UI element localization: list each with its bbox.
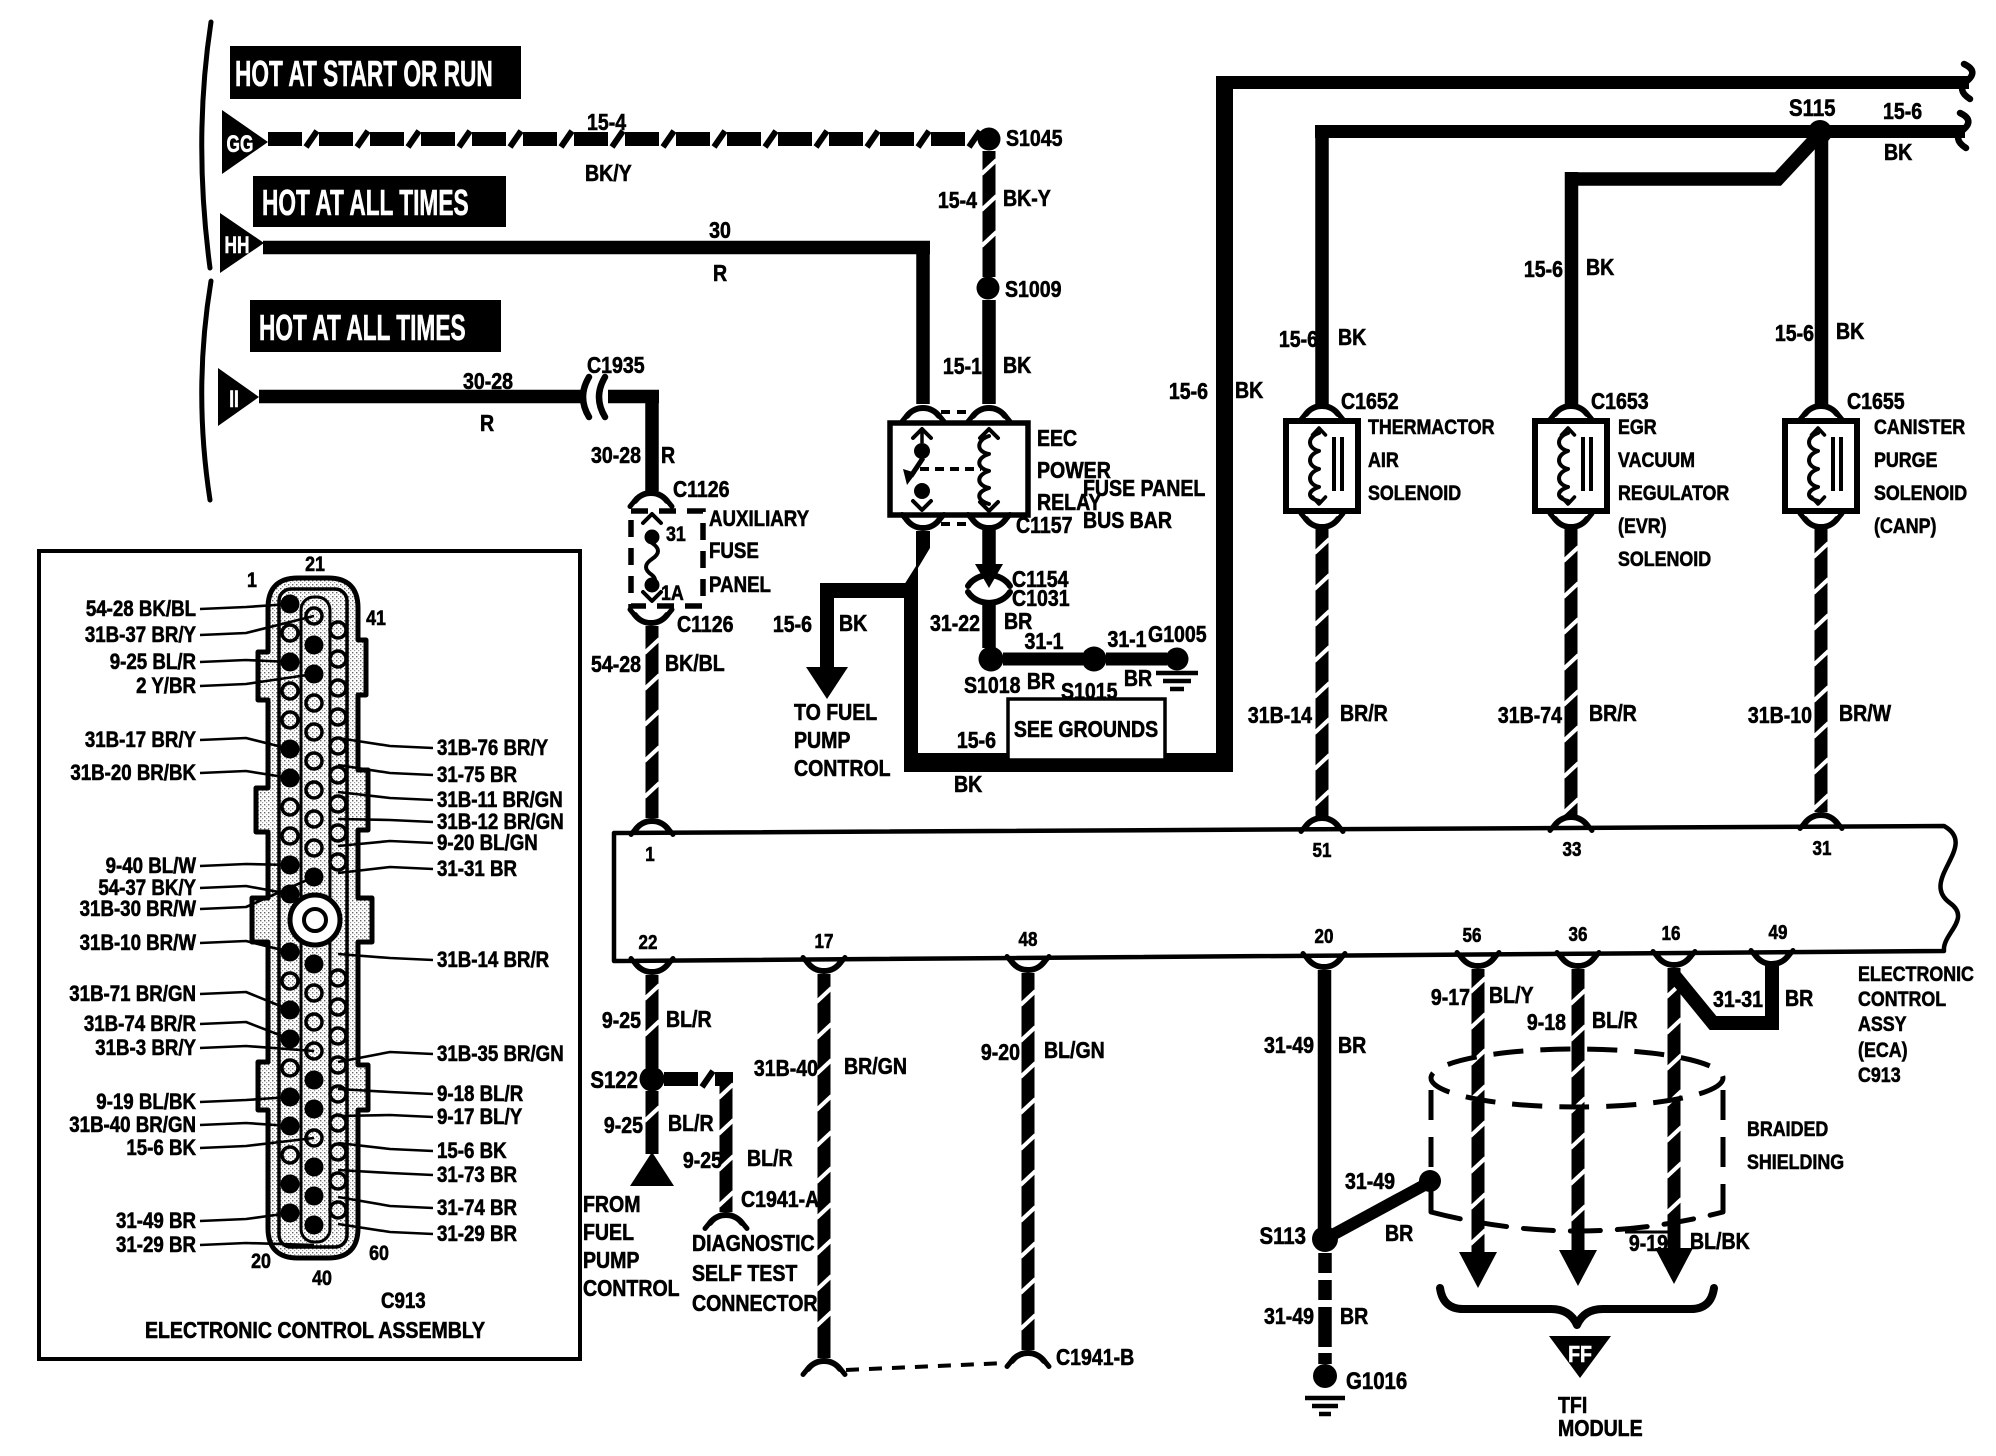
splice S113 <box>1312 1226 1338 1252</box>
connector C1154 arrowhead <box>975 564 1003 588</box>
dashed link below relay <box>941 522 973 526</box>
EGR vacuum regulator solenoid (C1653) <box>1555 406 1587 414</box>
svg-text:C1126: C1126 <box>677 612 734 638</box>
wire 30-28 R after C1935 <box>608 390 659 404</box>
ground symbol G1005 <box>1156 671 1198 676</box>
left margin brace upper <box>202 22 211 268</box>
wire 31-31 BR pin49 to pin16 <box>1673 964 1772 1023</box>
connector cup below pin 20 <box>1308 959 1340 967</box>
svg-text:TO FUEL: TO FUEL <box>794 700 877 726</box>
svg-text:SEE GROUNDS: SEE GROUNDS <box>1014 717 1158 743</box>
svg-text:DIAGNOSTIC: DIAGNOSTIC <box>692 1231 815 1257</box>
C913 connector body <box>252 578 372 1258</box>
svg-text:31B-71 BR/GN: 31B-71 BR/GN <box>69 983 196 1007</box>
svg-text:ELECTRONIC: ELECTRONIC <box>1858 963 1974 987</box>
relay switch pin arrow (top) <box>913 429 931 438</box>
svg-text:(ECA): (ECA) <box>1858 1039 1908 1063</box>
svg-text:PUMP: PUMP <box>583 1248 639 1274</box>
svg-text:31-31 BR: 31-31 BR <box>437 858 517 882</box>
svg-text:BL/Y: BL/Y <box>1489 983 1534 1009</box>
svg-text:FF: FF <box>1568 1342 1592 1368</box>
svg-text:C1031: C1031 <box>1012 586 1070 612</box>
svg-text:33: 33 <box>1563 838 1582 861</box>
ECA connector band <box>614 826 1958 961</box>
svg-text:31-1: 31-1 <box>1024 629 1063 655</box>
svg-text:C913: C913 <box>381 1290 426 1314</box>
svg-text:BK: BK <box>1586 255 1615 281</box>
wire 15-4 BK-Y S1045 to S1009 (hatched) <box>983 151 996 277</box>
svg-text:PANEL: PANEL <box>709 574 771 598</box>
svg-text:31: 31 <box>1813 837 1832 860</box>
svg-text:20: 20 <box>1315 925 1334 948</box>
svg-text:C1935: C1935 <box>587 353 645 379</box>
svg-text:S113: S113 <box>1259 1222 1306 1249</box>
wire to thermactor solenoid <box>1315 132 1329 404</box>
svg-text:BR: BR <box>1385 1221 1413 1247</box>
connector cup above pin 33 <box>1555 817 1587 825</box>
svg-text:BL/GN: BL/GN <box>1044 1038 1105 1064</box>
connector C1157 above relay (right) <box>973 408 1005 416</box>
svg-text:C1157: C1157 <box>1016 513 1072 539</box>
svg-text:15-6: 15-6 <box>1169 379 1208 405</box>
svg-text:FUSE: FUSE <box>709 540 759 564</box>
svg-text:15-6: 15-6 <box>1524 257 1563 283</box>
svg-text:REGULATOR: REGULATOR <box>1618 482 1729 506</box>
wire 31-22 BR to S1018 <box>982 604 996 648</box>
wire 9-20 BL/GN (hatched) <box>1022 973 1035 1350</box>
svg-text:31B-14 BR/R: 31B-14 BR/R <box>437 949 549 973</box>
connector cup above pin 31 <box>1805 815 1837 823</box>
SEE GROUNDS box <box>1008 699 1165 760</box>
svg-text:ASSY: ASSY <box>1858 1013 1907 1037</box>
svg-text:15-6: 15-6 <box>1279 327 1318 353</box>
svg-text:HOT AT ALL TIMES: HOT AT ALL TIMES <box>262 184 469 223</box>
svg-text:31B-17 BR/Y: 31B-17 BR/Y <box>85 729 197 753</box>
EEC power relay box <box>890 423 1028 515</box>
svg-text:21: 21 <box>305 553 325 577</box>
svg-text:C1941-B: C1941-B <box>1056 1345 1134 1371</box>
to fuel pump arrowhead <box>806 667 848 699</box>
svg-text:BK: BK <box>1836 319 1865 345</box>
svg-text:HH: HH <box>225 232 250 258</box>
fuse element <box>646 543 658 585</box>
svg-text:31-49: 31-49 <box>1264 1304 1314 1330</box>
braided shielding dashed cylinder <box>1431 1049 1723 1107</box>
svg-text:BL/R: BL/R <box>668 1111 714 1137</box>
connector C1941-B (left) <box>808 1361 840 1369</box>
svg-text:BR: BR <box>1027 669 1055 695</box>
connector C1157 above relay (left) <box>907 408 939 416</box>
svg-text:C1655: C1655 <box>1847 389 1905 415</box>
svg-text:CONNECTOR: CONNECTOR <box>692 1291 818 1317</box>
svg-text:ELECTRONIC CONTROL ASSEMBLY: ELECTRONIC CONTROL ASSEMBLY <box>145 1318 485 1344</box>
C913 connector inner slot <box>301 597 330 1242</box>
connector cup below pin 48 <box>1012 962 1044 970</box>
connector cup below pin 56 <box>1462 958 1494 966</box>
C913 pins <box>281 595 300 614</box>
svg-text:31-73 BR: 31-73 BR <box>437 1164 517 1188</box>
feed arrow II <box>218 368 259 426</box>
svg-text:BK: BK <box>839 611 868 637</box>
relay coil <box>980 429 998 438</box>
svg-text:CONTROL: CONTROL <box>1858 988 1946 1012</box>
svg-text:BR: BR <box>1124 666 1152 692</box>
shield tap dot <box>1419 1170 1441 1192</box>
wire 31B-74 BR/R to ECA pin 33 (hatched) <box>1565 528 1578 818</box>
connector C1157 below relay (right) <box>973 520 1005 528</box>
in-line connector C1935 <box>583 377 589 417</box>
wire 9-18 BL/R (hatched) <box>1572 969 1585 1250</box>
wire 30-28 R from II <box>259 390 582 404</box>
wire 31-49 BR S113 to G1016 (dashed) <box>1318 1253 1332 1273</box>
svg-text:BR: BR <box>1785 986 1813 1012</box>
connector cup above pin 51 <box>1306 818 1338 826</box>
feed arrow HH <box>220 213 264 273</box>
C913 detail box <box>39 551 580 1359</box>
svg-text:VACUUM: VACUUM <box>1618 449 1695 473</box>
dashed link C1941-B <box>846 1363 1006 1370</box>
erased text mark <box>734 874 768 879</box>
svg-text:9-19 BL/BK: 9-19 BL/BK <box>96 1091 196 1115</box>
C913 connector inner outline <box>279 589 347 1247</box>
svg-text:56: 56 <box>1463 924 1482 947</box>
svg-text:C1126: C1126 <box>673 477 730 503</box>
wire S122 to C1941-A (hatched horiz) <box>664 1072 698 1086</box>
svg-text:31B-74 BR/R: 31B-74 BR/R <box>84 1013 196 1037</box>
wire down to C1941-A (hatched) <box>720 1072 733 1212</box>
svg-text:BK: BK <box>1003 353 1032 379</box>
svg-text:SOLENOID: SOLENOID <box>1618 548 1711 572</box>
splice S1015 <box>1082 647 1107 672</box>
TFI arrowhead (pin36) <box>1559 1250 1597 1286</box>
svg-text:1: 1 <box>247 569 257 593</box>
wire 31B-14 BR/R to ECA pin 51 (hatched) <box>1316 528 1329 818</box>
off-page arrow FF <box>1549 1336 1611 1378</box>
splice S1045 <box>978 128 1001 151</box>
svg-text:BK-Y: BK-Y <box>1003 186 1051 212</box>
svg-text:9-18: 9-18 <box>1527 1010 1566 1036</box>
svg-text:(CANP): (CANP) <box>1874 515 1936 539</box>
svg-text:31-1: 31-1 <box>1107 627 1146 653</box>
relay switch pin arrow (bottom) <box>921 483 923 498</box>
C913 screw boss <box>290 895 340 945</box>
svg-text:S1009: S1009 <box>1005 277 1062 303</box>
dashed link above relay <box>941 410 973 414</box>
svg-text:S1045: S1045 <box>1006 126 1063 152</box>
svg-text:31-29 BR: 31-29 BR <box>437 1223 517 1247</box>
svg-text:EGR: EGR <box>1618 416 1657 440</box>
svg-text:9-18 BL/R: 9-18 BL/R <box>437 1083 523 1107</box>
splice S115 <box>1808 120 1832 144</box>
svg-text:BK: BK <box>1884 140 1913 166</box>
svg-text:C1941-A: C1941-A <box>741 1187 819 1213</box>
svg-text:R: R <box>480 411 494 437</box>
svg-text:FROM: FROM <box>583 1192 641 1218</box>
connector cup below pin 22 <box>636 964 668 972</box>
svg-text:SOLENOID: SOLENOID <box>1368 482 1461 506</box>
svg-text:9-40 BL/W: 9-40 BL/W <box>106 855 197 879</box>
svg-text:R: R <box>661 443 675 469</box>
relay actuation dashed line <box>920 467 981 471</box>
connector C1126 (bottom) <box>635 615 667 623</box>
connector cup below pin 16 <box>1658 957 1690 965</box>
svg-text:20: 20 <box>251 1250 271 1274</box>
wire S115 to canister purge solenoid <box>1815 140 1829 404</box>
wire 15-6 BK relay to bottom <box>904 531 930 772</box>
relay switch NO dot <box>914 483 930 499</box>
svg-text:31B-35 BR/GN: 31B-35 BR/GN <box>437 1043 564 1067</box>
svg-text:31B-10: 31B-10 <box>1748 703 1812 729</box>
wire 31-49 BR S113 to shield <box>1325 1182 1430 1239</box>
svg-text:PURGE: PURGE <box>1874 449 1937 473</box>
svg-text:BR/R: BR/R <box>1340 701 1388 727</box>
svg-text:31B-40: 31B-40 <box>754 1056 818 1082</box>
svg-text:31B-11 BR/GN: 31B-11 BR/GN <box>437 789 563 813</box>
wire 31B-40 BR/GN (hatched) <box>818 974 831 1358</box>
svg-text:9-25 BL/R: 9-25 BL/R <box>110 651 196 675</box>
svg-text:BK: BK <box>1338 325 1367 351</box>
svg-text:BK: BK <box>1235 378 1264 404</box>
svg-text:30: 30 <box>709 218 731 244</box>
wire S115 to EGR drop <box>1565 136 1818 179</box>
wire 9-17 BL/Y (hatched) <box>1472 969 1485 1252</box>
relay switch common dot <box>914 443 930 459</box>
svg-text:TFI: TFI <box>1558 1393 1587 1419</box>
wire 15-1 BK to relay <box>982 300 996 404</box>
svg-text:15-6: 15-6 <box>1883 99 1922 125</box>
svg-text:BK: BK <box>954 772 983 798</box>
svg-text:BL/R: BL/R <box>666 1007 712 1033</box>
svg-text:60: 60 <box>369 1242 389 1266</box>
svg-text:31B-14: 31B-14 <box>1248 703 1312 729</box>
svg-text:15-1: 15-1 <box>943 354 982 380</box>
svg-text:9-25: 9-25 <box>683 1148 722 1174</box>
svg-text:30-28: 30-28 <box>591 443 641 469</box>
svg-text:51: 51 <box>1313 839 1332 862</box>
svg-text:9-17: 9-17 <box>1431 985 1470 1011</box>
svg-text:BRAIDED: BRAIDED <box>1747 1118 1828 1142</box>
ground symbol G1016 <box>1305 1396 1345 1401</box>
svg-text:SOLENOID: SOLENOID <box>1874 482 1967 506</box>
fuse pin 31 arrow <box>643 514 661 523</box>
svg-text:31-75 BR: 31-75 BR <box>437 764 517 788</box>
svg-text:FUSE PANEL: FUSE PANEL <box>1083 476 1205 502</box>
wire 9-25 BL/R pin22 to S122 (hatched) <box>646 975 659 1068</box>
svg-text:15-4: 15-4 <box>938 188 977 214</box>
connector cup below pin 49 <box>1756 956 1788 964</box>
wire 15-6 BK bottom run <box>904 753 1233 772</box>
svg-text:16: 16 <box>1662 922 1681 945</box>
svg-text:40: 40 <box>312 1267 332 1291</box>
svg-text:9-25: 9-25 <box>604 1113 643 1139</box>
svg-text:C1653: C1653 <box>1591 389 1649 415</box>
torn end (top wire) <box>1962 64 1972 99</box>
svg-text:CANISTER: CANISTER <box>1874 416 1965 440</box>
connector cup below pin 17 <box>808 963 840 971</box>
svg-text:31B-74: 31B-74 <box>1498 703 1562 729</box>
wire S122 down to from-fuel-pump (hatched) <box>646 1091 659 1154</box>
svg-text:15-6: 15-6 <box>1775 321 1814 347</box>
svg-text:22: 22 <box>639 931 658 954</box>
feed arrow GG <box>222 110 268 174</box>
svg-text:31-49 BR: 31-49 BR <box>116 1210 196 1234</box>
svg-text:S1018: S1018 <box>964 673 1021 699</box>
svg-text:54-28 BK/BL: 54-28 BK/BL <box>86 598 196 622</box>
svg-text:GG: GG <box>227 131 254 157</box>
wire 15-4 BK/Y from GG (hatched) <box>268 132 302 146</box>
svg-text:G1005: G1005 <box>1148 622 1207 648</box>
svg-text:SELF TEST: SELF TEST <box>692 1261 797 1287</box>
connector C1941-A <box>710 1215 742 1223</box>
wire 54-28 BK/BL to ECA pin 1 (hatched) <box>646 626 659 818</box>
svg-text:41: 41 <box>366 607 386 631</box>
svg-text:31B-3 BR/Y: 31B-3 BR/Y <box>95 1037 196 1061</box>
svg-text:31-31: 31-31 <box>1713 987 1763 1013</box>
ground dot G1005 <box>1166 648 1189 671</box>
svg-text:BL/BK: BL/BK <box>1690 1229 1750 1255</box>
svg-text:31-22: 31-22 <box>930 611 980 637</box>
from fuel pump arrow <box>630 1152 674 1186</box>
svg-text:31B-10 BR/W: 31B-10 BR/W <box>80 932 197 956</box>
svg-text:(EVR): (EVR) <box>1618 515 1667 539</box>
bus bar segment S1015-G1005 <box>1106 653 1167 666</box>
connector C1157 below relay (left) <box>907 520 939 528</box>
wire 31-49 BR pin20 to S113 <box>1318 970 1332 1228</box>
banner HOT AT ALL TIMES (upper) <box>253 176 506 227</box>
svg-text:S115: S115 <box>1789 94 1836 121</box>
banner HOT AT ALL TIMES (lower) <box>250 300 501 352</box>
svg-text:AIR: AIR <box>1368 449 1399 473</box>
svg-text:C913: C913 <box>1858 1064 1901 1088</box>
TFI arrowhead (pin16) <box>1655 1248 1693 1284</box>
relay switch blade arrowhead <box>903 469 916 485</box>
svg-text:49: 49 <box>1769 921 1788 944</box>
svg-text:R: R <box>713 261 727 287</box>
svg-text:31B-30 BR/W: 31B-30 BR/W <box>80 898 197 922</box>
connector cup above pin 1 <box>636 821 668 829</box>
svg-text:CONTROL: CONTROL <box>794 756 891 782</box>
svg-text:AUXILIARY: AUXILIARY <box>709 508 809 532</box>
svg-text:31B-37 BR/Y: 31B-37 BR/Y <box>85 624 197 648</box>
svg-text:31: 31 <box>666 523 686 547</box>
bus bar segment S1018-S1015 <box>1003 653 1083 666</box>
svg-text:2 Y/BR: 2 Y/BR <box>136 675 196 699</box>
svg-text:31-29 BR: 31-29 BR <box>116 1234 196 1258</box>
TFI arrowhead (pin56) <box>1459 1252 1497 1288</box>
ground dot G1016 <box>1313 1364 1337 1388</box>
svg-text:SHIELDING: SHIELDING <box>1747 1151 1844 1175</box>
relay switch blade <box>911 458 923 476</box>
wire 31-22 BR from relay <box>982 530 996 572</box>
svg-text:HOT AT ALL TIMES: HOT AT ALL TIMES <box>259 309 466 348</box>
svg-text:PUMP: PUMP <box>794 728 850 754</box>
svg-text:54-28: 54-28 <box>591 652 641 678</box>
fuse top terminal dot <box>645 530 660 545</box>
svg-text:15-6: 15-6 <box>957 728 996 754</box>
connector C1154 cup <box>968 575 1010 586</box>
svg-text:9-25: 9-25 <box>602 1008 641 1034</box>
svg-text:15-6 BK: 15-6 BK <box>126 1137 196 1161</box>
svg-text:BR: BR <box>1340 1304 1368 1330</box>
connector C1126 (top) <box>635 493 667 501</box>
svg-text:BK/BL: BK/BL <box>665 651 725 677</box>
svg-text:31-49: 31-49 <box>1345 1169 1395 1195</box>
svg-text:31B-40 BR/GN: 31B-40 BR/GN <box>69 1114 196 1138</box>
svg-text:1: 1 <box>645 843 654 866</box>
svg-text:C1652: C1652 <box>1341 389 1399 415</box>
svg-text:36: 36 <box>1569 923 1588 946</box>
wire 30 R from HH <box>263 241 930 255</box>
svg-text:II: II <box>229 386 239 412</box>
svg-text:BL/R: BL/R <box>747 1146 793 1172</box>
svg-text:HOT AT START OR RUN: HOT AT START OR RUN <box>235 55 493 94</box>
svg-text:15-6: 15-6 <box>773 612 812 638</box>
banner HOT AT START OR RUN <box>230 46 521 99</box>
svg-text:48: 48 <box>1019 928 1038 951</box>
svg-text:9-20: 9-20 <box>981 1040 1020 1066</box>
connector cup below pin 36 <box>1562 958 1594 966</box>
svg-text:FUEL: FUEL <box>583 1220 634 1246</box>
fuse bottom terminal dot <box>645 578 660 593</box>
auxiliary fuse panel dashed box <box>631 511 703 606</box>
svg-text:15-4: 15-4 <box>587 110 626 136</box>
wire 15-6 BK top run <box>1216 76 1969 89</box>
left margin brace lower <box>202 281 211 500</box>
svg-text:15-6 BK: 15-6 BK <box>437 1140 507 1164</box>
canister purge solenoid (C1655) <box>1805 406 1837 414</box>
svg-text:BR/GN: BR/GN <box>844 1054 907 1080</box>
wire 15-6 BK right riser <box>1216 76 1233 772</box>
svg-text:G1016: G1016 <box>1346 1367 1407 1394</box>
svg-text:1A: 1A <box>661 582 684 606</box>
svg-text:BR/R: BR/R <box>1589 701 1637 727</box>
svg-text:BL/R: BL/R <box>1592 1008 1638 1034</box>
connector C1941-B (right) <box>1012 1353 1044 1361</box>
torn end (second wire) <box>1958 113 1968 148</box>
svg-text:9-20 BL/GN: 9-20 BL/GN <box>437 832 538 856</box>
svg-text:17: 17 <box>815 930 834 953</box>
branch to fuel pump arrow <box>820 583 911 668</box>
wire 31B-10 BR/W to ECA pin 31 (hatched) <box>1815 528 1828 812</box>
splice S1018 <box>979 647 1004 672</box>
svg-text:31-74 BR: 31-74 BR <box>437 1197 517 1221</box>
thermactor air solenoid (C1652) <box>1306 406 1338 414</box>
svg-text:31-49: 31-49 <box>1264 1033 1314 1059</box>
svg-text:30-28: 30-28 <box>463 369 513 395</box>
fuse pin 1A arrow <box>643 592 661 601</box>
svg-text:BR/W: BR/W <box>1839 701 1892 727</box>
svg-text:EEC: EEC <box>1037 426 1077 452</box>
svg-text:31B-20 BR/BK: 31B-20 BR/BK <box>70 762 196 786</box>
svg-text:31B-76 BR/Y: 31B-76 BR/Y <box>437 737 549 761</box>
svg-text:MODULE: MODULE <box>1558 1416 1643 1442</box>
svg-text:S122: S122 <box>590 1066 638 1093</box>
connector C1031 cup <box>968 592 1010 603</box>
svg-text:THERMACTOR: THERMACTOR <box>1368 416 1494 440</box>
splice S122 <box>640 1067 665 1092</box>
svg-text:9-17 BL/Y: 9-17 BL/Y <box>437 1106 523 1130</box>
svg-text:BUS BAR: BUS BAR <box>1083 508 1172 534</box>
wire 9-19 BL/BK (hatched) <box>1668 968 1681 1248</box>
splice S1009 <box>977 277 1000 300</box>
TFI underbrace <box>1440 1288 1714 1325</box>
svg-text:BR: BR <box>1338 1033 1366 1059</box>
svg-text:BK/Y: BK/Y <box>585 161 632 187</box>
svg-text:CONTROL: CONTROL <box>583 1276 680 1302</box>
wire 15-6 BK second run <box>1315 125 1965 138</box>
